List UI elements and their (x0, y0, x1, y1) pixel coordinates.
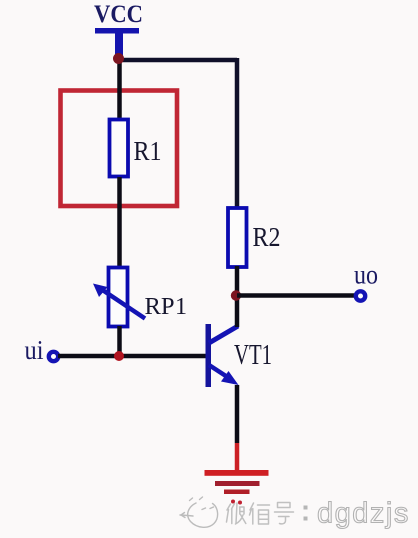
power symbol VCC (95, 28, 139, 58)
watermark colon (304, 506, 308, 521)
resistor R1 (110, 120, 129, 177)
wire ui to base of VT1 (58, 354, 206, 359)
wire VCC node to R1 (117, 58, 122, 120)
wire R2 to collector of VT1 (235, 266, 240, 327)
svg-text:uo: uo (354, 260, 378, 290)
ground (205, 470, 269, 505)
wire R1 to RP1 (117, 177, 122, 267)
svg-text:VCC: VCC (94, 0, 143, 28)
wire collector node to uo (237, 293, 357, 298)
svg-text:R1: R1 (134, 136, 162, 166)
svg-text:VT1: VT1 (234, 339, 272, 371)
watermark logo (180, 497, 218, 527)
wire VCC rail to R2 (top horizontal and right vertical) (117, 58, 237, 208)
watermark text 微信号 (227, 503, 294, 525)
junction at VCC node (113, 53, 124, 64)
potentiometer RP1 (93, 268, 145, 327)
svg-text:dgdzjs: dgdzjs (317, 498, 410, 530)
transistor VT1 (206, 324, 239, 387)
node uo terminal (356, 291, 365, 300)
wire RP1 to base node (117, 326, 122, 356)
junction base node (114, 351, 124, 361)
node ui terminal (49, 352, 58, 361)
svg-text:1: 1 (175, 294, 187, 320)
resistor R2 (228, 208, 247, 267)
junction collector node (231, 290, 241, 300)
wire emitter of VT1 to ground (235, 385, 240, 471)
svg-text:ui: ui (25, 335, 44, 365)
svg-text:RP: RP (145, 294, 175, 320)
svg-text:R2: R2 (253, 222, 281, 252)
highlight box around R1 (61, 91, 178, 207)
